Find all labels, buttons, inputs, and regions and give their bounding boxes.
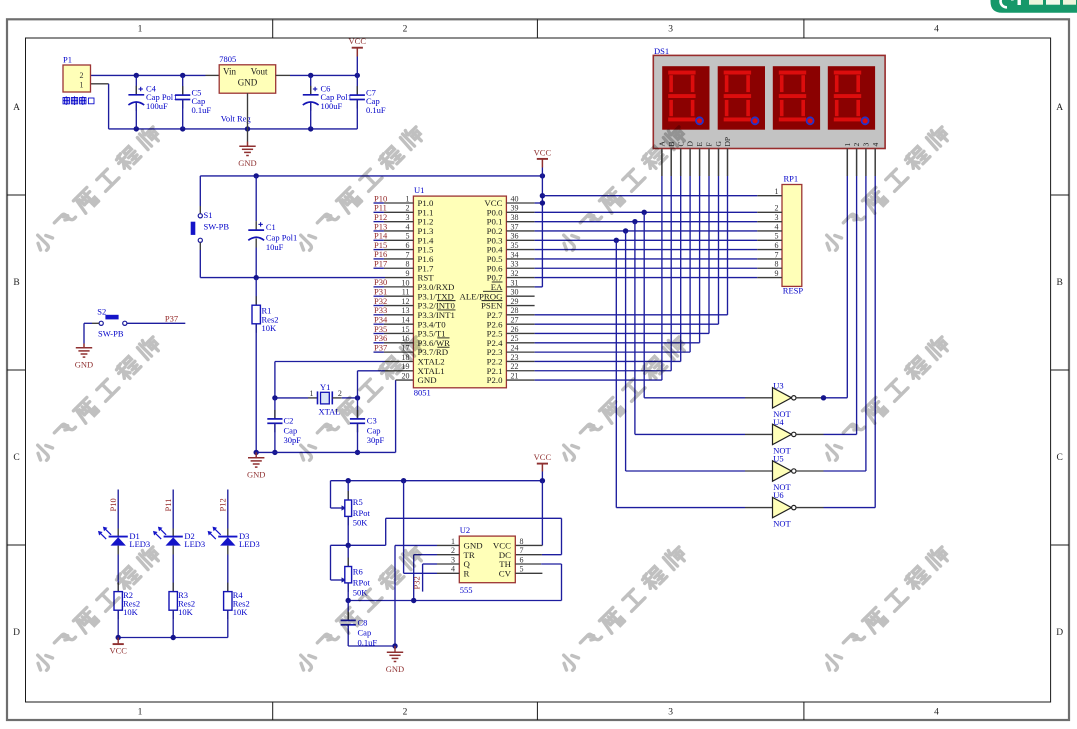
svg-text:0.1uF: 0.1uF (366, 105, 386, 115)
svg-text:SW-PB: SW-PB (98, 329, 124, 339)
svg-text:4: 4 (934, 708, 939, 718)
U2 left pin stubs+wires (437, 545, 459, 573)
svg-text:100uF: 100uF (321, 101, 343, 111)
ground symbol under S2 (75, 348, 93, 370)
svg-text:8: 8 (775, 260, 779, 269)
power port VCC for 555 (534, 452, 552, 481)
svg-text:S1: S1 (204, 210, 213, 220)
svg-text:9: 9 (775, 269, 779, 278)
svg-text:NOT: NOT (773, 519, 791, 529)
svg-text:6: 6 (520, 555, 524, 564)
svg-text:10K: 10K (123, 607, 139, 617)
svg-text:Vin: Vin (223, 67, 236, 77)
svg-text:GND: GND (386, 664, 404, 674)
svg-text:P11: P11 (163, 499, 173, 512)
timer U2 555 (451, 525, 524, 595)
wire U3 output to display digit 1 (796, 176, 847, 400)
svg-text:50K: 50K (353, 518, 369, 528)
svg-text:VCC: VCC (534, 147, 552, 157)
svg-text:8: 8 (406, 260, 410, 269)
inverter U3 NOT (773, 380, 797, 419)
DS1 segment pin stubs (662, 149, 875, 177)
svg-text:E: E (695, 142, 704, 147)
capacitor C2 Cap 30pF (267, 398, 301, 455)
svg-text:4: 4 (934, 25, 939, 35)
svg-text:VCC: VCC (534, 452, 552, 462)
svg-text:R: R (464, 568, 470, 578)
svg-text:Cap: Cap (367, 425, 381, 435)
svg-text:0.1uF: 0.1uF (192, 105, 212, 115)
capacitor C6 Cap Pol1 100uF (303, 75, 352, 128)
inverter U5 NOT (773, 454, 797, 493)
svg-text:P12: P12 (218, 498, 228, 511)
svg-text:1: 1 (406, 194, 410, 203)
svg-text:LED3: LED3 (129, 539, 150, 549)
wire RP1 pin1 to VCC (542, 195, 757, 197)
wire segment nets P2.x to display A-DP (535, 176, 728, 380)
svg-text:GND: GND (418, 375, 437, 385)
svg-text:13: 13 (402, 306, 410, 315)
svg-text:5: 5 (520, 565, 524, 574)
U1 left net label wires P10-P17 P30-P37 (374, 193, 388, 352)
svg-text:Cap Pol1: Cap Pol1 (266, 233, 297, 243)
svg-text:DP: DP (723, 137, 732, 147)
svg-text:3: 3 (406, 213, 410, 222)
svg-text:GND: GND (75, 360, 93, 370)
svg-text:4: 4 (775, 222, 779, 231)
svg-text:30: 30 (511, 288, 519, 297)
svg-text:30pF: 30pF (367, 435, 385, 445)
svg-text:2: 2 (406, 204, 410, 213)
svg-text:12: 12 (402, 297, 410, 306)
junction dots on input rail (134, 73, 314, 132)
wire R5/R6 mid rail (DC node) (331, 518, 562, 554)
wire crystal left node (272, 389, 317, 400)
resistor R2 Res2 10K (114, 555, 140, 638)
wire RST rail to U1 pin9 (200, 275, 413, 280)
svg-text:35: 35 (511, 241, 519, 250)
resistor pack RP1 RESP (775, 174, 804, 296)
svg-text:2: 2 (451, 546, 455, 555)
power port VCC (LED rail) (109, 638, 127, 656)
wire U2 TH pin6 to bottom rail (541, 564, 561, 601)
svg-text:37: 37 (511, 222, 519, 231)
wire net from P1 pin2 to 7805 Vin (91, 74, 220, 76)
svg-text:2: 2 (775, 204, 779, 213)
wire U2 R pin4 to VCC rail (404, 481, 437, 574)
svg-text:4: 4 (451, 565, 455, 574)
svg-text:A: A (13, 103, 20, 113)
wire net P1 pin1 down to bottom ground rail (91, 84, 358, 129)
wire 555 bottom rail (TR/TH/C8 node) (346, 598, 562, 603)
svg-text:P17: P17 (374, 259, 387, 269)
wire net P12 to LED D3 (218, 490, 228, 529)
svg-text:SW-PB: SW-PB (204, 222, 230, 232)
svg-text:22: 22 (511, 362, 519, 371)
svg-text:P2.0: P2.0 (487, 375, 503, 385)
capacitor C1 Cap Pol1 10uF (248, 176, 297, 278)
microcontroller U1 8051 (402, 185, 519, 397)
svg-text:D: D (686, 141, 695, 147)
svg-text:VCC: VCC (349, 36, 367, 46)
svg-text:C3: C3 (367, 415, 377, 425)
svg-text:25: 25 (511, 334, 519, 343)
svg-text:40: 40 (511, 194, 519, 203)
svg-text:R6: R6 (353, 567, 363, 577)
svg-text:38: 38 (511, 213, 519, 222)
resistor R4 Res2 10K (224, 555, 250, 638)
wire U2 GND pin1 to ground (395, 545, 437, 646)
svg-text:F: F (705, 142, 714, 146)
wire U6 output to display digit 4 (796, 176, 875, 508)
U2 right pin stubs (515, 564, 542, 573)
wire U4 output to display digit 2 (796, 176, 857, 434)
svg-text:LED3: LED3 (184, 539, 205, 549)
power port VCC (top) (349, 36, 367, 75)
watermark pattern 小飞鹰工程师 (32, 123, 952, 674)
green badge top right (991, 0, 1077, 13)
svg-text:B: B (1057, 278, 1063, 288)
svg-text:P37: P37 (374, 342, 387, 352)
svg-text:U6: U6 (773, 490, 783, 500)
wire crystal ground rail / U1 pin20 GND (256, 380, 413, 452)
svg-text:GND: GND (247, 470, 265, 480)
svg-text:26: 26 (511, 325, 519, 334)
svg-text:S2: S2 (97, 307, 106, 317)
svg-text:P10: P10 (108, 498, 118, 511)
ground symbol under 555 (386, 643, 404, 674)
svg-text:2: 2 (852, 143, 861, 147)
svg-text:10: 10 (402, 278, 410, 287)
capacitor C8 Cap 0.1uF (341, 601, 395, 648)
RP1 pin stubs (757, 196, 782, 278)
svg-text:14: 14 (402, 316, 410, 325)
inverter U4 NOT (773, 417, 797, 456)
svg-text:29: 29 (511, 297, 519, 306)
svg-text:7: 7 (520, 546, 524, 555)
svg-text:5: 5 (406, 232, 410, 241)
wire net P11 to LED D2 (163, 490, 173, 529)
inverter U6 NOT (773, 490, 797, 528)
potentiometer R5 RPot 50K (331, 481, 371, 546)
svg-text:36: 36 (511, 232, 519, 241)
svg-text:1: 1 (310, 389, 314, 398)
svg-text:3: 3 (668, 708, 673, 718)
svg-text:C: C (13, 453, 19, 463)
svg-text:LED3: LED3 (239, 539, 260, 549)
svg-text:U2: U2 (460, 525, 470, 535)
svg-text:23: 23 (511, 353, 519, 362)
ground symbol under crystal rail (247, 452, 265, 479)
svg-text:2: 2 (403, 708, 408, 718)
switch S2 SW-PB (97, 307, 127, 339)
svg-text:P32: P32 (412, 576, 422, 589)
svg-text:28: 28 (511, 306, 519, 315)
svg-text:P1: P1 (63, 55, 72, 65)
potentiometer R6 RPot 50K (331, 545, 371, 600)
svg-text:Vout: Vout (251, 67, 268, 77)
wire net P37 from S2 (127, 313, 185, 323)
svg-text:5: 5 (775, 232, 779, 241)
display DS1 4-digit seven segment (653, 46, 885, 149)
svg-text:15: 15 (402, 325, 410, 334)
LED D1 LED3 (98, 527, 150, 555)
svg-text:7: 7 (775, 250, 779, 259)
svg-text:555: 555 (460, 585, 473, 595)
voltage regulator 7805 Volt Reg (219, 54, 276, 124)
svg-text:1: 1 (451, 537, 455, 546)
svg-text:RESP: RESP (783, 286, 804, 296)
svg-text:27: 27 (511, 316, 519, 325)
wire U2 TR pin2 to bottom rail (414, 555, 437, 601)
svg-text:4: 4 (871, 143, 880, 147)
svg-text:21: 21 (511, 371, 519, 380)
ground symbol under 7805 (238, 146, 256, 168)
wire net P10 to LED D1 (108, 490, 118, 529)
svg-text:3: 3 (775, 213, 779, 222)
svg-text:7: 7 (406, 250, 410, 259)
U1 left pin stubs (384, 203, 414, 352)
svg-text:30pF: 30pF (284, 435, 302, 445)
svg-text:9: 9 (406, 269, 410, 278)
wire U5 output to display digit 3 (796, 176, 866, 471)
svg-text:Volt Reg: Volt Reg (221, 114, 252, 124)
svg-text:C: C (1057, 453, 1063, 463)
LED D2 LED3 (153, 527, 205, 555)
svg-text:U5: U5 (773, 454, 783, 464)
wire LED bottom rail to VCC (116, 635, 228, 640)
svg-text:B: B (13, 278, 19, 288)
capacitor C5 Cap 0.1uF (175, 75, 211, 128)
switch S1 SW-PB (191, 176, 230, 278)
svg-text:32: 32 (511, 269, 519, 278)
svg-text:2: 2 (80, 71, 84, 80)
svg-text:39: 39 (511, 204, 519, 213)
crystal Y1 XTAL (318, 382, 341, 417)
svg-text:6: 6 (406, 241, 410, 250)
svg-text:34: 34 (511, 250, 519, 259)
resistor R3 Res2 10K (169, 555, 195, 638)
svg-text:C2: C2 (284, 415, 294, 425)
svg-text:CV: CV (499, 568, 512, 578)
capacitor C7 Cap 0.1uF (350, 75, 386, 128)
svg-text:10K: 10K (178, 607, 194, 617)
svg-text:Cap: Cap (358, 627, 372, 637)
svg-text:4: 4 (406, 222, 410, 231)
svg-text:GND: GND (238, 158, 256, 168)
svg-text:10uF: 10uF (266, 242, 284, 252)
wire S2 left to ground (84, 323, 99, 348)
svg-text:G: G (714, 141, 723, 147)
wire net 7805 Vout to VCC / C6 / C7 (276, 73, 360, 78)
svg-text:GND: GND (238, 78, 258, 88)
capacitor C4 Cap Pol1 100uF (128, 75, 177, 128)
svg-text:11: 11 (402, 288, 410, 297)
svg-text:33: 33 (511, 260, 519, 269)
svg-text:0.1uF: 0.1uF (358, 637, 378, 647)
svg-text:U3: U3 (773, 380, 783, 390)
svg-text:VCC: VCC (109, 646, 127, 656)
svg-text:1: 1 (843, 143, 852, 147)
svg-text:RPot: RPot (353, 578, 371, 588)
svg-text:1: 1 (775, 187, 779, 196)
wire VCC rail above U1 (S1/C1 top rail) (200, 173, 545, 178)
wire 555 VCC top rail (331, 478, 546, 545)
svg-text:3: 3 (451, 555, 455, 564)
svg-text:U4: U4 (773, 417, 784, 427)
wire crystal right node to XTAL1 (332, 371, 413, 401)
svg-text:U1: U1 (414, 185, 424, 195)
svg-text:RPot: RPot (353, 508, 371, 518)
svg-text:8051: 8051 (414, 387, 431, 397)
svg-text:20: 20 (402, 371, 410, 380)
svg-text:Cap: Cap (284, 425, 298, 435)
wire P0.0-P0.3 down to NOT gate inputs (616, 212, 772, 507)
svg-text:P37: P37 (165, 313, 178, 323)
capacitor C3 Cap 30pF (350, 398, 385, 455)
connector P1 电源接口 (63, 55, 94, 106)
svg-text:10K: 10K (262, 323, 278, 333)
svg-text:DS1: DS1 (654, 46, 669, 56)
svg-text:6: 6 (775, 241, 779, 250)
wire U2 Q pin3 net P32 (412, 564, 437, 592)
svg-text:31: 31 (511, 278, 519, 287)
svg-text:3: 3 (668, 25, 673, 35)
svg-text:24: 24 (511, 344, 519, 353)
power port VCC for U1 / EA (534, 147, 552, 287)
svg-text:8: 8 (520, 537, 524, 546)
svg-text:Y1: Y1 (320, 382, 330, 392)
svg-text:A: A (1056, 103, 1063, 113)
svg-text:2: 2 (403, 25, 408, 35)
svg-text:10K: 10K (233, 607, 249, 617)
svg-text:1: 1 (138, 25, 143, 35)
svg-text:100uF: 100uF (146, 101, 168, 111)
svg-text:7805: 7805 (219, 54, 236, 64)
svg-text:D: D (1056, 628, 1063, 638)
svg-text:D: D (13, 628, 20, 638)
wire P0.0-P0.7 bus to RP1 (535, 210, 758, 278)
svg-text:2: 2 (338, 389, 342, 398)
svg-text:1: 1 (80, 81, 84, 90)
svg-text:R5: R5 (353, 497, 363, 507)
wire 7805 GND to ground (247, 93, 249, 146)
resistor R1 Res2 10K (252, 278, 279, 455)
svg-text:RP1: RP1 (784, 174, 799, 184)
svg-text:3: 3 (862, 143, 871, 147)
wire XTAL2 net (U1 pin18) (275, 362, 414, 398)
U1 right pin stubs (506, 203, 534, 380)
svg-text:1: 1 (138, 708, 143, 718)
svg-text:C1: C1 (266, 222, 276, 232)
LED D3 LED3 (208, 527, 260, 555)
